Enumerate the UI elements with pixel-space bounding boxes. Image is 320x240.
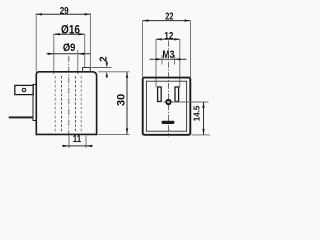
svg-text:12: 12 [164,30,173,42]
front view body inner [146,81,186,131]
svg-text:11: 11 [73,133,82,145]
terminal slot right [175,87,179,102]
dimension 2 extension of boss top [92,67,112,69]
dimension 29 top of side view [36,5,91,17]
dimension M3 slot inner spacing with outside arrows [150,55,187,65]
svg-text:Ø9: Ø9 [63,42,76,54]
tab screw hole [22,88,25,91]
extension line left of 29 down to body corner [35,13,37,71]
M3 screw hole circle [166,100,170,104]
hidden dashed line bore right inner [75,76,77,133]
dimension 11 line with outside arrows [62,133,93,147]
dimension 2 arrows and text [99,56,110,78]
connector shoulder strip [33,85,36,121]
coil body outline side view [36,72,96,135]
extension line right of 29 down to boss corner [89,13,91,67]
center line of front view [168,41,170,137]
extension lines of 22 [142,21,144,77]
dimension 11 extension lines [68,136,70,148]
dimension 22 top of front view [143,10,191,22]
bottom slot capsule [162,121,175,124]
dimension D16 [54,24,85,36]
connector tab [15,85,33,94]
crosshair ticks beside circle [163,101,173,103]
hidden dashed line bore right outer [80,76,82,133]
svg-text:2: 2 [99,56,110,62]
terminal blade [9,116,33,118]
dimension 30 line [116,72,129,135]
dimension 14.5 extension from circle [172,101,209,103]
dimension 30 extension of body bottom [98,133,130,135]
boss on top of body [83,68,91,72]
terminal slot left [158,87,162,102]
svg-text:14.5: 14.5 [192,105,201,121]
svg-text:Ø16: Ø16 [61,24,80,36]
dimension 14.5 extension bottom [192,134,211,136]
dimension D9 with outside arrows [47,42,91,55]
extension line right of D9 [77,50,79,74]
svg-text:30: 30 [116,94,128,106]
hidden dashed line bore left inner [61,76,63,133]
hidden dashed line bore left outer [54,76,56,133]
extension lines of 12 down to slots [155,39,157,87]
dimension 12 [156,30,180,42]
center line of coil axis [68,56,70,140]
svg-text:29: 29 [60,5,69,17]
extension line right of D16 to boss top [84,34,86,67]
dimension 2 extension of body top [98,71,130,73]
svg-text:22: 22 [165,10,173,22]
dimension 14.5 line [192,102,204,135]
extension line left shared by D16 and D9 [53,34,55,74]
front view body outer [143,78,191,135]
